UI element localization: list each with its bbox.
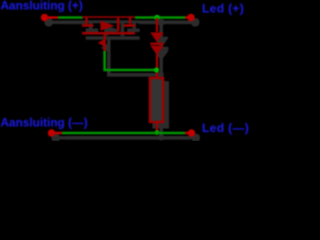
svg-text:Led (—): Led (—) (202, 121, 249, 135)
svg-text:Led (+): Led (+) (202, 2, 244, 16)
resistor R1 (150, 78, 163, 132)
diode D1 (150, 18, 163, 44)
transistor Q1 (depletion MOSFET, drawn horizontally) (82, 17, 135, 52)
terminal post: Aansluiting (+) (41, 14, 58, 21)
diode D2 (150, 46, 163, 78)
svg-text:Aansluiting (+): Aansluiting (+) (1, 0, 83, 13)
svg-text:Aansluiting (—): Aansluiting (—) (1, 115, 88, 129)
junction: top rail / diode branch (154, 15, 160, 21)
terminal post: Led (-) (185, 129, 195, 136)
wire: bottom rail (62, 132, 185, 135)
wire: Q1 gate to node A (105, 51, 156, 70)
junction: node A (154, 67, 159, 72)
wire: supply+ to Q1 drain (58, 16, 83, 19)
wire shadows (45, 19, 199, 142)
junction: bottom rail / resistor (155, 130, 160, 135)
wire: Q1 source to Led(+) (135, 16, 186, 19)
terminal post: Led (+) (185, 14, 195, 21)
terminal post: Aansluiting (-) (48, 129, 62, 136)
